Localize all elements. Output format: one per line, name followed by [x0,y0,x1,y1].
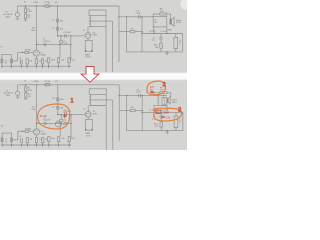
output stage patch (bottom schematic redrawn) [153,93,184,105]
white gap band [0,72,187,80]
svg-text:220uF: 220uF [162,111,169,114]
annotation blob 3 [147,81,166,95]
bottom schematic [1,80,183,151]
red arrow down [81,67,99,83]
red resistor box blob2 [156,110,161,114]
watermark circle top right [180,0,191,10]
red capacitor mod blob3 [150,91,154,93]
top schematic [1,1,183,72]
speaker SPKb [167,99,168,103]
background white [0,0,187,150]
svg-text:1uF: 1uF [63,112,67,114]
label SPKb [172,100,178,104]
svg-text:0.22: 0.22 [166,118,171,120]
svg-text:SPKR: SPKR [172,102,178,104]
red capacitor mod blob2 [161,116,165,117]
resistor zigzag R15 [157,96,159,99]
transformer T1b box [162,98,167,106]
top schematic panel [0,0,187,73]
bottom schematic panel [0,80,187,150]
red capacitor mod blob1 [63,113,66,118]
svg-text:45 mV: 45 mV [40,115,48,118]
wire output top [152,93,154,96]
annotation blob 2 [154,108,182,121]
extra circle symbol C3new [55,121,61,127]
annotation blob 1 [38,104,70,129]
